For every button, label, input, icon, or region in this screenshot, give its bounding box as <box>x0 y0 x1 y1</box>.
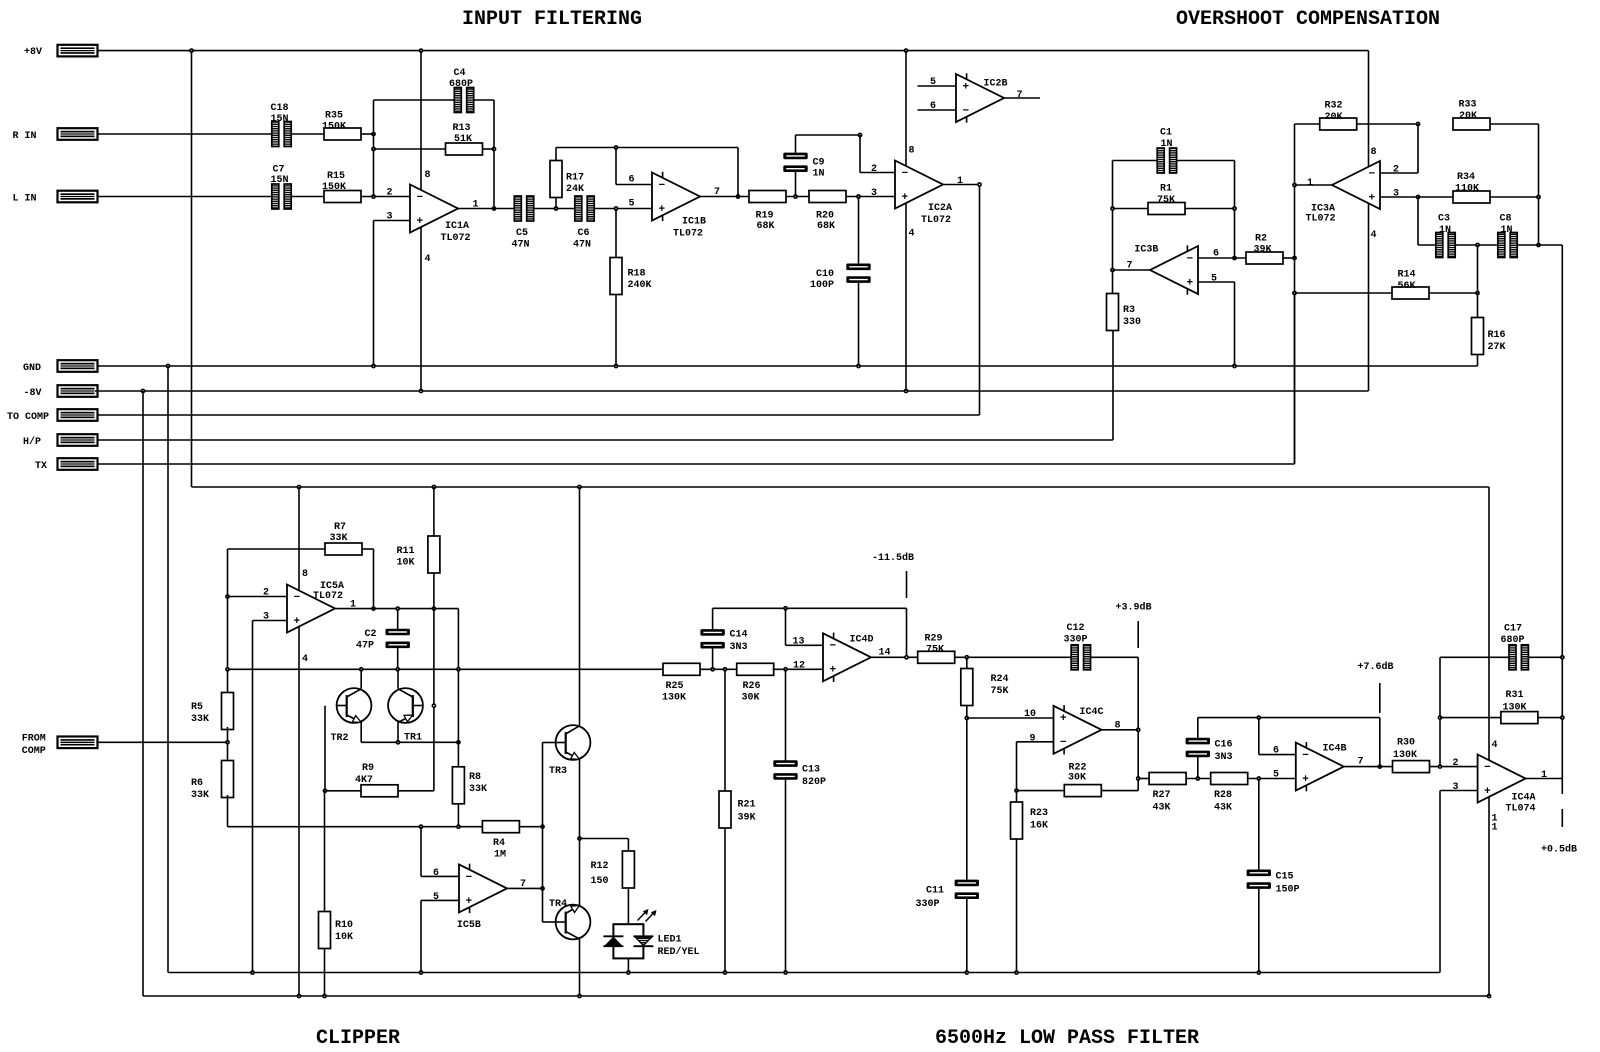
svg-text:+: + <box>830 665 837 677</box>
wire R31 out <box>1538 717 1562 719</box>
junction <box>904 655 909 660</box>
svg-text:C3: C3 <box>1438 214 1450 225</box>
wire R7 to out <box>373 549 375 609</box>
wire emitter line <box>361 741 458 743</box>
svg-text:3: 3 <box>263 612 269 623</box>
wire R10 bottom <box>324 949 326 997</box>
wire R11 bottom <box>433 573 435 609</box>
resistor R2 <box>1246 234 1283 265</box>
wire TR3 base <box>543 742 557 744</box>
resistor R6 <box>191 761 234 802</box>
junction <box>419 389 424 394</box>
svg-text:C15: C15 <box>1276 872 1294 883</box>
svg-text:C2: C2 <box>365 629 377 640</box>
junction <box>577 485 582 490</box>
LED LED1 <box>603 909 699 958</box>
svg-text:7: 7 <box>1017 90 1023 101</box>
junction <box>323 788 328 793</box>
wire pin6 riser <box>420 827 422 877</box>
wire TR2 collector <box>360 669 362 688</box>
wire to R32 <box>1295 123 1321 125</box>
wire R27-R28 <box>1186 778 1211 780</box>
wire C17/R31 riser <box>1439 657 1441 766</box>
resistor R33 <box>1453 100 1490 131</box>
svg-text:IC4C: IC4C <box>1080 707 1104 718</box>
wire -8V drop <box>142 391 144 996</box>
wire TR1 emitter <box>397 722 399 742</box>
wire pin3 down <box>1417 197 1419 245</box>
svg-text:+: + <box>1060 713 1067 725</box>
wire feedback IC4D <box>713 607 907 609</box>
wire IC3B right riser <box>1234 161 1236 259</box>
resistor R3 <box>1107 294 1142 331</box>
wire R7 left drop <box>227 549 229 597</box>
junction <box>1560 715 1565 720</box>
op-amp IC4D <box>793 633 891 682</box>
wire C10 top <box>858 197 860 265</box>
junction <box>419 824 424 829</box>
svg-text:C16: C16 <box>1215 740 1233 751</box>
junction <box>492 147 497 152</box>
wire pin3 to GND <box>1439 791 1441 973</box>
wire pin9 <box>1017 741 1054 743</box>
junction <box>1014 970 1019 975</box>
svg-text:820P: 820P <box>802 777 826 788</box>
svg-text:1N: 1N <box>1439 225 1451 236</box>
resistor R23 <box>1011 802 1049 839</box>
wire <box>298 626 300 996</box>
wire R8 bottom <box>457 804 459 827</box>
wire out to signal <box>457 609 459 670</box>
wire IC2A out to TO COMP <box>979 185 981 416</box>
wire C10 bottom <box>858 282 860 366</box>
capacitor C1 <box>1157 128 1176 174</box>
svg-text:R34: R34 <box>1457 172 1475 183</box>
wire to R34 <box>1418 196 1453 198</box>
junction <box>1110 206 1115 211</box>
junction <box>371 194 376 199</box>
svg-text:4: 4 <box>1492 740 1498 751</box>
wire C2 bottom <box>397 648 399 670</box>
resistor R21 <box>719 791 756 828</box>
resistor R5 <box>191 693 234 730</box>
svg-text:−: − <box>659 180 666 192</box>
wire TR3 collector <box>579 487 581 726</box>
wire to R27 <box>1138 778 1149 780</box>
capacitor C9 <box>783 153 824 180</box>
wire lower node <box>228 826 483 828</box>
svg-text:+0.5dB: +0.5dB <box>1541 844 1577 856</box>
capacitor C11 <box>916 880 980 910</box>
svg-text:−: − <box>466 872 473 884</box>
wire IC4D out <box>871 656 918 658</box>
wire C3-C8 <box>1455 244 1497 246</box>
wire feedback down <box>737 148 739 197</box>
svg-text:IC4A: IC4A <box>1512 793 1536 804</box>
wire C9 top <box>795 135 797 153</box>
wire R21 bottom <box>724 828 726 973</box>
svg-text:5: 5 <box>1211 274 1217 285</box>
wire <box>298 487 300 591</box>
svg-text:−: − <box>294 592 301 604</box>
svg-text:100P: 100P <box>810 280 834 291</box>
wire R4 out <box>519 826 542 828</box>
junction <box>225 594 230 599</box>
resistor R22 <box>1064 763 1101 797</box>
resistor R35 <box>322 111 361 141</box>
svg-text:R11: R11 <box>397 546 415 557</box>
svg-text:TX: TX <box>35 461 47 472</box>
wire IC4B out <box>1344 766 1393 768</box>
junction <box>1136 776 1141 781</box>
svg-text:10K: 10K <box>397 558 415 569</box>
junction <box>456 740 461 745</box>
junction <box>432 606 437 611</box>
svg-text:R17: R17 <box>566 173 584 184</box>
wire pin3 <box>1440 790 1478 792</box>
resistor R24 <box>961 669 1009 706</box>
wire C17 out <box>1529 656 1563 658</box>
resistor R32 <box>1320 101 1357 131</box>
svg-text:10: 10 <box>1024 709 1036 720</box>
resistor R25 <box>662 663 700 703</box>
svg-text:5: 5 <box>433 892 439 903</box>
wire pin7 <box>1113 269 1151 271</box>
wire to R13 <box>374 148 446 150</box>
svg-text:+: + <box>417 216 424 228</box>
wire feedback IC1B <box>556 147 738 149</box>
svg-text:6: 6 <box>629 175 635 186</box>
wire IC2B out stub <box>1004 97 1040 99</box>
svg-text:C4: C4 <box>454 68 466 79</box>
svg-text:R20: R20 <box>816 211 834 222</box>
svg-text:4: 4 <box>302 654 308 665</box>
svg-text:IC5B: IC5B <box>457 920 481 931</box>
svg-text:R1: R1 <box>1160 184 1172 195</box>
svg-text:1: 1 <box>957 176 963 187</box>
svg-text:TL072: TL072 <box>921 215 951 226</box>
wire -11.5dB stub <box>906 571 908 598</box>
junction <box>225 740 230 745</box>
junction <box>1110 268 1115 273</box>
svg-text:39K: 39K <box>738 813 756 824</box>
wire pin2 <box>228 596 288 598</box>
svg-text:2: 2 <box>1453 758 1459 769</box>
wire R9/TR1 base riser <box>433 609 435 791</box>
svg-text:−: − <box>830 641 837 653</box>
junction <box>419 48 424 53</box>
junction <box>1377 764 1382 769</box>
wire R15 to pin2 <box>361 196 410 198</box>
wire FROM COMP <box>96 741 227 743</box>
junction <box>710 667 715 672</box>
svg-text:2: 2 <box>1393 165 1399 176</box>
wire R20 to pin3 <box>846 196 895 198</box>
wire pin3 <box>253 620 288 622</box>
svg-text:4K7: 4K7 <box>355 775 373 786</box>
svg-text:H/P: H/P <box>23 436 41 448</box>
wire R35 out <box>361 133 374 135</box>
svg-text:16K: 16K <box>1030 821 1048 832</box>
svg-text:−: − <box>1060 737 1067 749</box>
svg-text:R18: R18 <box>628 269 646 280</box>
wire R17 top <box>555 148 557 161</box>
junction <box>1256 776 1261 781</box>
svg-text:240K: 240K <box>628 280 652 291</box>
wire LED bottom <box>627 958 629 972</box>
junction <box>1416 122 1421 127</box>
wire IC1B out <box>700 196 749 198</box>
svg-text:130K: 130K <box>1393 750 1417 761</box>
wire output tail <box>1561 779 1563 795</box>
capacitor C10 <box>810 264 871 292</box>
wire R6 bottom <box>227 795 229 827</box>
svg-text:150K: 150K <box>322 122 346 133</box>
svg-text:RED/YEL: RED/YEL <box>658 946 700 958</box>
svg-text:TR4: TR4 <box>549 899 567 910</box>
capacitor C5 <box>512 196 534 251</box>
junction <box>783 606 788 611</box>
svg-text:R24: R24 <box>991 674 1009 685</box>
wire pin2 <box>1380 172 1418 174</box>
svg-text:43K: 43K <box>1214 803 1232 814</box>
junction <box>626 970 631 975</box>
svg-text:150: 150 <box>591 876 609 887</box>
svg-text:R25: R25 <box>666 681 684 692</box>
wire R16 top <box>1477 293 1479 318</box>
junction <box>540 824 545 829</box>
wire R14 right <box>1429 292 1478 294</box>
wire <box>420 51 422 190</box>
wire R32-R33 <box>1357 123 1419 125</box>
junction <box>904 389 909 394</box>
junction <box>1438 764 1443 769</box>
junction <box>1256 970 1261 975</box>
junction <box>456 667 461 672</box>
svg-text:LED1: LED1 <box>658 935 682 946</box>
wire R9 right <box>398 790 434 792</box>
wire TO COMP <box>98 414 980 416</box>
wire R26 to pin12 <box>773 668 823 670</box>
resistor R1 <box>1148 184 1185 215</box>
junction <box>1560 655 1565 660</box>
wire to R31 <box>1440 717 1501 719</box>
junction <box>250 970 255 975</box>
junction <box>856 364 861 369</box>
junction <box>793 194 798 199</box>
level marker +7.6dB <box>1358 661 1394 673</box>
wire pin2 riser <box>1417 124 1419 173</box>
svg-text:C1: C1 <box>1160 128 1172 139</box>
connector H/P <box>23 434 98 448</box>
svg-text:+: + <box>659 204 666 216</box>
svg-text:30K: 30K <box>742 693 760 704</box>
wire R11 top <box>433 487 435 536</box>
svg-text:47N: 47N <box>512 240 530 251</box>
wire R21 top <box>724 669 726 791</box>
wire <box>1488 487 1490 761</box>
svg-text:R26: R26 <box>743 681 761 692</box>
svg-text:3N3: 3N3 <box>1215 752 1233 763</box>
wire C6 to pin5 <box>594 208 652 210</box>
transistor TR2 <box>331 688 372 744</box>
wire TR4 base <box>543 921 557 923</box>
svg-text:33K: 33K <box>191 790 209 801</box>
svg-text:130K: 130K <box>662 693 686 704</box>
svg-text:C6: C6 <box>578 228 590 239</box>
op-amp IC2A <box>871 146 963 240</box>
resistor R16 <box>1472 318 1506 355</box>
wire C7-R15 <box>291 196 324 198</box>
wire R19-R20 <box>786 196 809 198</box>
wire C16 top <box>1197 718 1199 739</box>
svg-text:+: + <box>466 896 473 908</box>
wire pin5 <box>421 899 459 901</box>
wire R23 bottom <box>1016 839 1018 973</box>
svg-text:IC3B: IC3B <box>1134 245 1158 256</box>
junction <box>419 970 424 975</box>
junction <box>614 145 619 150</box>
svg-text:C18: C18 <box>271 103 289 114</box>
wire R18 bottom <box>615 295 617 367</box>
wire TR2 emitter <box>360 722 362 742</box>
svg-text:TL072: TL072 <box>313 591 343 602</box>
resistor R27 <box>1149 773 1186 814</box>
svg-text:CLIPPER: CLIPPER <box>316 1027 400 1050</box>
svg-text:R29: R29 <box>925 634 943 645</box>
svg-text:+: + <box>902 192 909 204</box>
junction <box>1475 243 1480 248</box>
svg-text:GND: GND <box>23 363 41 374</box>
wire C2 top <box>397 609 399 629</box>
junction <box>1536 243 1541 248</box>
capacitor C3 <box>1436 214 1455 258</box>
wire R33 out <box>1490 123 1539 125</box>
wire R10 top <box>324 791 326 912</box>
junction <box>1256 715 1261 720</box>
op-amp IC2B <box>930 73 1023 122</box>
svg-text:56K: 56K <box>1398 281 1416 292</box>
wire R8 top <box>457 669 459 767</box>
wire C18-R35 <box>291 133 324 135</box>
svg-text:C14: C14 <box>730 630 748 641</box>
svg-text:TL072: TL072 <box>673 229 703 240</box>
svg-text:3: 3 <box>1393 189 1399 200</box>
capacitor C6 <box>573 196 594 251</box>
svg-text:3: 3 <box>1453 782 1459 793</box>
junction <box>614 206 619 211</box>
svg-text:680P: 680P <box>1501 635 1525 646</box>
svg-text:IC1B: IC1B <box>682 217 706 228</box>
op-amp IC4C <box>1024 705 1121 754</box>
wire C1 right <box>1177 160 1235 162</box>
wire pin6 <box>1259 754 1296 756</box>
op-amp IC5A <box>263 569 356 665</box>
svg-text:24K: 24K <box>566 184 584 195</box>
svg-text:C17: C17 <box>1504 624 1522 635</box>
wire to C3 <box>1418 244 1436 246</box>
svg-text:R13: R13 <box>453 123 471 134</box>
svg-text:47P: 47P <box>356 641 374 652</box>
svg-text:C13: C13 <box>802 765 820 776</box>
svg-text:75K: 75K <box>926 644 944 655</box>
wire +0.5dB stub <box>1561 809 1563 827</box>
connector L IN <box>13 191 98 205</box>
wire R33/R34 riser <box>1538 124 1540 245</box>
wire R1 left <box>1113 208 1149 210</box>
resistor R9 <box>355 763 398 797</box>
resistor R17 <box>550 161 584 198</box>
junction <box>783 970 788 975</box>
junction <box>964 970 969 975</box>
wire +8V rail <box>98 50 1369 52</box>
junction <box>189 48 194 53</box>
resistor R29 <box>918 634 955 664</box>
wire pin6 <box>421 875 459 877</box>
svg-text:C5: C5 <box>516 228 528 239</box>
wire TX riser <box>1294 293 1296 464</box>
svg-text:+7.6dB: +7.6dB <box>1358 661 1394 673</box>
wire to R12 <box>580 838 629 840</box>
svg-text:IC4B: IC4B <box>1323 743 1347 754</box>
connector GND <box>23 360 98 374</box>
junction <box>1014 788 1019 793</box>
svg-text:INPUT FILTERING: INPUT FILTERING <box>462 8 642 31</box>
wire <box>420 227 422 391</box>
resistor R34 <box>1453 172 1490 203</box>
svg-text:TR3: TR3 <box>549 766 567 777</box>
svg-text:R6: R6 <box>191 778 203 789</box>
wire R23 top <box>1016 791 1018 802</box>
wire R28 to pin5 <box>1248 778 1296 780</box>
junction <box>432 703 437 708</box>
op-amp IC1B <box>629 172 721 240</box>
wire pin3 to GND <box>373 221 375 367</box>
svg-text:68K: 68K <box>817 221 835 232</box>
wire right bus <box>1561 245 1563 779</box>
wire TR1 collector <box>397 669 399 688</box>
svg-text:−: − <box>902 168 909 180</box>
svg-text:20K: 20K <box>1459 111 1477 122</box>
wire to C17 <box>1440 656 1509 658</box>
wire C9 bottom <box>795 171 797 196</box>
resistor R13 <box>446 123 483 155</box>
svg-text:+8V: +8V <box>24 47 42 58</box>
junction <box>141 389 146 394</box>
svg-text:6: 6 <box>1213 249 1219 260</box>
capacitor C16 <box>1186 738 1233 763</box>
svg-text:13: 13 <box>793 637 805 648</box>
junction <box>577 994 582 999</box>
svg-text:−: − <box>1187 253 1194 265</box>
wire R12 top <box>627 839 629 852</box>
capacitor C17 <box>1501 624 1529 670</box>
svg-text:75K: 75K <box>1157 195 1175 206</box>
junction <box>395 667 400 672</box>
resistor R19 <box>749 191 786 233</box>
capacitor C15 <box>1247 870 1300 896</box>
svg-text:330P: 330P <box>916 899 940 910</box>
capacitor C4 <box>449 68 474 113</box>
wire pin3 <box>374 220 411 222</box>
svg-text:43K: 43K <box>1153 803 1171 814</box>
resistor R14 <box>1392 270 1429 300</box>
wire R1 right <box>1185 208 1235 210</box>
svg-text:150K: 150K <box>322 182 346 193</box>
svg-text:6: 6 <box>1273 746 1279 757</box>
svg-text:1N: 1N <box>813 169 825 180</box>
transistor TR1 <box>388 688 423 744</box>
